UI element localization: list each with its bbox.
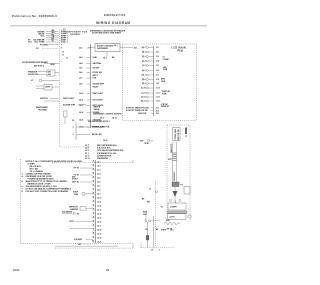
- note paragraph top: [90, 30, 126, 34]
- svg-text:FILL TUBE: FILL TUBE: [34, 42, 45, 44]
- svg-text:BLUE LED: BLUE LED: [92, 134, 102, 136]
- svg-text:J4-1: J4-1: [134, 46, 138, 49]
- inline connector plug: [172, 182, 183, 187]
- svg-text:DOOR WATER DISPENSER: DOOR WATER DISPENSER: [22, 61, 48, 64]
- svg-text:(W)-1: (W)-1: [142, 47, 146, 49]
- svg-text:11: 11: [62, 55, 64, 57]
- connector P1 door plug: [63, 29, 68, 44]
- svg-text:J4-9: J4-9: [100, 117, 104, 120]
- svg-text:SENSOR: SENSOR: [161, 106, 170, 108]
- label J4-7 outside box: [114, 44, 118, 47]
- check valve arrow: [173, 187, 178, 204]
- svg-text:6: 6: [61, 42, 62, 44]
- freezer door switch box: [28, 70, 59, 76]
- svg-text:YL: YL: [63, 42, 65, 44]
- svg-text:86: 86: [93, 185, 95, 187]
- compressor gasket hatched band: [168, 211, 188, 213]
- J labels right bottom: [151, 250, 160, 252]
- run winding zigzag: [164, 220, 180, 225]
- svg-text:CONTROL: CONTROL: [70, 34, 81, 36]
- svg-text:COND FAN: COND FAN: [174, 128, 177, 139]
- svg-text:P8: P8: [181, 185, 183, 187]
- notes text block: [22, 160, 83, 193]
- svg-text:93: 93: [93, 213, 95, 215]
- wire pair compartment: [173, 142, 177, 185]
- header model number: [104, 13, 126, 17]
- label defrost th: [72, 182, 92, 184]
- svg-text:E PHOTO TRANS ICE SW: E PHOTO TRANS ICE SW: [126, 109, 148, 112]
- svg-text:J2-11: J2-11: [97, 202, 101, 204]
- label main pcb link: [91, 126, 110, 129]
- svg-text:LIGHT: LIGHT: [45, 86, 51, 88]
- svg-text:ICE MAKER FILL SOL: ICE MAKER FILL SOL: [97, 152, 117, 155]
- freezer light box: [36, 85, 59, 91]
- compressor terminal box: [168, 214, 192, 219]
- photo sensor stubs: [151, 108, 160, 115]
- wire aux row: [40, 43, 59, 46]
- svg-text:J4-4: J4-4: [79, 62, 82, 65]
- svg-text:12: 12: [66, 57, 68, 59]
- svg-text:(O)-10: (O)-10: [141, 88, 146, 90]
- footer page number: [106, 268, 109, 272]
- ice maker bottom cluster: [62, 211, 79, 216]
- svg-text:DOOR SEE NOTE 4 THIS SHEET: DOOR SEE NOTE 4 THIS SHEET: [92, 32, 122, 35]
- svg-text:VALVE: VALVE: [94, 108, 101, 111]
- svg-text:J4-11: J4-11: [112, 117, 117, 120]
- svg-text:83: 83: [93, 173, 95, 175]
- svg-text:AUGER MTR: AUGER MTR: [93, 83, 105, 86]
- svg-text:J1-12: J1-12: [156, 97, 160, 99]
- svg-text:J1-5: J1-5: [156, 65, 159, 67]
- dispenser interface box: [95, 44, 120, 52]
- svg-text:10: 10: [62, 51, 64, 53]
- defrost heater cluster: [69, 207, 93, 212]
- svg-text:SEE NOTE 4: SEE NOTE 4: [34, 65, 44, 68]
- svg-text:J2-19: J2-19: [97, 234, 101, 236]
- svg-text:DOOR UI BOARD: DOOR UI BOARD: [97, 44, 114, 47]
- svg-text:LED: LED: [93, 78, 97, 80]
- svg-text:95: 95: [93, 221, 95, 223]
- label dispenser control board bottom: [93, 113, 122, 116]
- svg-text:(B)-8: (B)-8: [142, 79, 146, 81]
- wire UI to J4: [120, 46, 137, 49]
- label fill tube htr: [28, 42, 45, 44]
- svg-text:HOUSING: HOUSING: [38, 110, 48, 112]
- bus pin numbers: [61, 31, 62, 44]
- svg-text:J2-7: J2-7: [97, 186, 100, 188]
- svg-text:99: 99: [93, 237, 95, 239]
- svg-text:P5: P5: [77, 213, 79, 215]
- svg-text:J2-1: J2-1: [97, 162, 100, 164]
- svg-text:DEF: DEF: [140, 140, 143, 142]
- main pcb edge line: [95, 160, 97, 244]
- svg-text:J2-2: J2-2: [97, 166, 100, 168]
- svg-text:89: 89: [93, 197, 95, 199]
- svg-text:NOTE 3: NOTE 3: [72, 179, 78, 181]
- tiny text under compressor: [161, 229, 175, 232]
- svg-text:J1-10: J1-10: [156, 88, 160, 90]
- svg-text:J4-5: J4-5: [79, 67, 82, 70]
- main pcb pin ticks and labels: [92, 161, 102, 244]
- svg-text:COMPR: COMPR: [170, 207, 177, 209]
- svg-text:J4-16: J4-16: [79, 119, 83, 122]
- svg-text:J2-15: J2-15: [97, 218, 101, 220]
- svg-text:J2-21: J2-21: [97, 242, 101, 244]
- pcb edge line right: [153, 46, 155, 116]
- svg-text:J2-13: J2-13: [97, 210, 101, 212]
- svg-text:DEF TH: DEF TH: [72, 182, 79, 184]
- pin net labels right: [156, 47, 160, 102]
- svg-text:82: 82: [93, 169, 95, 171]
- svg-text:EW23BC71IS: EW23BC71IS: [104, 13, 126, 17]
- svg-text:FZ TH: FZ TH: [74, 175, 80, 177]
- svg-text:J4-7: J4-7: [79, 77, 82, 80]
- bottom wire plain: [70, 228, 93, 230]
- wire UI left stub: [88, 47, 95, 49]
- svg-text:J3-1: J3-1: [156, 108, 160, 110]
- header rule: [10, 25, 207, 27]
- dashed return wire: [55, 245, 133, 249]
- header title WIRING DIAGRAM: [96, 21, 131, 25]
- label OL left: [161, 207, 164, 209]
- footer date code: [13, 268, 20, 272]
- svg-text:1: 1: [67, 42, 68, 44]
- label water valve right cluster: [94, 106, 101, 111]
- svg-text:(Y)-5: (Y)-5: [142, 65, 146, 67]
- svg-text:-1: -1: [159, 250, 161, 252]
- svg-text:(R)-3: (R)-3: [142, 56, 146, 58]
- svg-text:J4-6: J4-6: [79, 71, 82, 74]
- dispenser housing label: [36, 107, 48, 111]
- condenser fan box: [173, 128, 181, 141]
- svg-text:J4-14: J4-14: [79, 111, 83, 114]
- svg-text:NEUTRAL: NEUTRAL: [93, 62, 103, 65]
- svg-text:18 BK: 18 BK: [50, 64, 56, 66]
- svg-text:J1-1: J1-1: [156, 47, 159, 49]
- svg-text:PWR: PWR: [163, 69, 168, 71]
- evap fan cluster: [73, 191, 93, 196]
- svg-text:J4-7: J4-7: [114, 44, 118, 47]
- bus stub labels lower: [61, 44, 68, 59]
- svg-text:J4-10: J4-10: [79, 92, 83, 95]
- svg-text:WTR VALVE DISPENSER SOL: WTR VALVE DISPENSER SOL: [97, 149, 125, 152]
- svg-text:AUGER MTR: AUGER MTR: [63, 103, 76, 106]
- label UI comm: [163, 57, 169, 61]
- svg-text:GND: GND: [161, 81, 166, 83]
- svg-text:03/11: 03/11: [13, 268, 20, 272]
- svg-text:ICE CHUTE: ICE CHUTE: [93, 100, 104, 102]
- svg-text:(B)-2: (B)-2: [142, 52, 146, 54]
- svg-text:J4-1: J4-1: [79, 47, 82, 50]
- svg-text:SW: SW: [48, 74, 51, 76]
- svg-text:J2-11: J2-11: [85, 158, 90, 160]
- defrost thermostat left: [140, 139, 153, 145]
- svg-text:J2-6: J2-6: [97, 182, 100, 184]
- overload protector: [170, 199, 182, 201]
- label disp light left: [63, 98, 75, 100]
- ice mkr label bottom: [74, 239, 93, 241]
- svg-text:DEFROST: DEFROST: [174, 171, 176, 181]
- label J4 main: [88, 117, 117, 124]
- connector legend table: [85, 145, 125, 160]
- label thermistor: [74, 168, 93, 170]
- svg-text:-3: -3: [72, 127, 74, 129]
- svg-text:J2-8: J2-8: [97, 190, 100, 192]
- svg-text:85: 85: [93, 181, 95, 183]
- svg-text:FOR ANY TEST CONNECTION USE J2: FOR ANY TEST CONNECTION USE J2 HEADER.: [26, 190, 70, 193]
- tiny connector mid compartment: [149, 189, 158, 193]
- svg-text:(G)-12: (G)-12: [141, 97, 146, 99]
- label photo sensor: [126, 107, 150, 115]
- svg-text:ICE MKR: ICE MKR: [74, 239, 83, 241]
- dispenser board pin stubs: [79, 47, 105, 129]
- svg-text:SEE DISPENSER NOTE 4: SEE DISPENSER NOTE 4: [88, 120, 109, 123]
- wire freezer door row: [22, 61, 59, 66]
- svg-text:J1-11: J1-11: [156, 93, 160, 95]
- svg-text:100: 100: [92, 241, 95, 243]
- see note label: [72, 176, 78, 180]
- label condenser fan vertical: [170, 144, 173, 153]
- svg-text:92: 92: [93, 209, 95, 211]
- svg-text:90: 90: [93, 201, 95, 203]
- svg-text:(Y)-11: (Y)-11: [141, 93, 145, 95]
- svg-text:J4-11: J4-11: [79, 99, 83, 102]
- label fz thermistor: [74, 175, 93, 177]
- svg-text:J1-8: J1-8: [156, 79, 159, 81]
- svg-text:97: 97: [93, 229, 95, 231]
- pin numbers left: [141, 47, 146, 102]
- label LCD MAIN PCB: [172, 47, 187, 53]
- label water valve cluster: [37, 30, 45, 37]
- label ice maker: [28, 39, 45, 42]
- svg-text:DISPENSER: DISPENSER: [97, 158, 109, 160]
- svg-text:J1-6: J1-6: [156, 70, 159, 72]
- svg-text:J3-2: J3-2: [156, 110, 160, 112]
- dispenser board edge (vertical): [90, 44, 92, 128]
- svg-text:S M R: S M R: [170, 217, 176, 219]
- svg-text:DOOR AJAR: DOOR AJAR: [92, 126, 104, 129]
- header publication number: [12, 14, 57, 18]
- small connector mid: [64, 111, 68, 124]
- run capacitor label: [143, 212, 148, 216]
- svg-text:WH OR: WH OR: [167, 229, 173, 231]
- svg-text:J4-3: J4-3: [103, 57, 107, 60]
- svg-text:GND RTN: GND RTN: [138, 113, 147, 115]
- auger motor bottom: [70, 221, 93, 223]
- label LED pwr: [163, 67, 168, 71]
- svg-text:J2-12: J2-12: [97, 206, 101, 208]
- label display pwr: [162, 90, 171, 95]
- svg-text:DOOR SW: DOOR SW: [28, 74, 38, 76]
- svg-text:J5: J5: [149, 189, 151, 191]
- svg-text:(W)-7: (W)-7: [142, 75, 146, 77]
- svg-text:J3-3: J3-3: [156, 113, 160, 115]
- svg-text:8: 8: [61, 48, 62, 50]
- svg-text:P3: P3: [72, 120, 74, 122]
- svg-text:J2-10: J2-10: [97, 198, 101, 200]
- svg-text:J2-5: J2-5: [97, 178, 100, 180]
- wire aux row 2: [36, 48, 59, 50]
- svg-text:J2-9: J2-9: [97, 194, 100, 196]
- svg-text:DISPENSER CONTROL BOARD: DISPENSER CONTROL BOARD: [93, 113, 122, 116]
- machine compartment dashed strip: [167, 125, 190, 222]
- wire harness dashed bus (freezer door fold line): [60, 30, 90, 148]
- wire code labels compartment: [142, 199, 151, 204]
- compressor shell box: [168, 201, 186, 211]
- svg-text:(R)-9: (R)-9: [142, 83, 146, 85]
- svg-text:(W)-13: (W)-13: [141, 101, 146, 103]
- svg-text:98: 98: [93, 233, 95, 235]
- svg-text:J2-14: J2-14: [97, 213, 101, 216]
- svg-text:J6: J6: [151, 250, 153, 252]
- door sw bottom: [78, 244, 93, 246]
- svg-text:J2-18: J2-18: [97, 230, 101, 232]
- wire color code labels: [52, 30, 63, 42]
- door switch label: [40, 98, 59, 101]
- svg-text:J1-7: J1-7: [156, 75, 159, 77]
- dashed top edge lower-right section: [52, 160, 133, 163]
- dashed bottom right corner: [141, 242, 175, 248]
- defrost label vertical: [174, 171, 176, 181]
- svg-text:MTR: MTR: [70, 221, 75, 223]
- svg-text:INPUT: INPUT: [93, 75, 99, 77]
- svg-text:HEATER: HEATER: [70, 208, 78, 211]
- connector pin circles: [146, 47, 153, 103]
- svg-text:J2-16: J2-16: [97, 222, 101, 224]
- svg-text:7: 7: [61, 44, 62, 46]
- svg-text:DISP LIGHT: DISP LIGHT: [93, 93, 104, 95]
- svg-text:J1-9: J1-9: [156, 83, 159, 85]
- svg-text:DOOR SW: DOOR SW: [93, 72, 102, 74]
- compartment wire verticals: [148, 216, 154, 248]
- svg-text:MOTOR 2W: MOTOR 2W: [178, 129, 180, 140]
- defrost heater coil symbol: [168, 153, 176, 161]
- run cap terminals: [145, 214, 160, 222]
- vertical wire below UI box: [103, 52, 115, 60]
- svg-text:(G)-6: (G)-6: [142, 70, 146, 72]
- terminal block right: [184, 187, 190, 195]
- svg-text:J1-13: J1-13: [156, 101, 160, 103]
- svg-text:FAN: FAN: [74, 193, 78, 196]
- right stub compartment: [185, 128, 187, 138]
- label dispenser pcb control: [66, 32, 88, 37]
- lower section dashed border: [21, 159, 134, 244]
- svg-text:91: 91: [93, 205, 95, 207]
- svg-text:DISPENSER: DISPENSER: [97, 48, 109, 50]
- svg-text:B PHOTO TRANS FRZ LED: B PHOTO TRANS FRZ LED: [126, 107, 150, 110]
- svg-text:PWR: PWR: [162, 93, 167, 95]
- svg-text:FF TH: FF TH: [74, 168, 80, 170]
- svg-text:ICE MAKER: ICE MAKER: [62, 211, 73, 214]
- svg-text:PCB: PCB: [178, 50, 183, 53]
- svg-text:RELAY: RELAY: [93, 85, 100, 88]
- freezer light lamp: [31, 79, 59, 82]
- svg-text:COMM: COMM: [163, 59, 169, 61]
- svg-text:J1-2: J1-2: [156, 52, 159, 54]
- svg-text:P4 GRN: P4 GRN: [40, 43, 48, 46]
- label auger motor left: [63, 103, 87, 106]
- machine compartment left dashed edge: [155, 180, 157, 248]
- svg-text:ICE DR: ICE DR: [93, 68, 100, 70]
- svg-text:87: 87: [93, 189, 95, 191]
- see note under door row: [34, 65, 44, 68]
- long wire to compressor area: [55, 245, 118, 247]
- svg-text:80: 80: [93, 161, 95, 163]
- svg-text:88: 88: [93, 193, 95, 195]
- svg-text:J2-15: J2-15: [103, 140, 107, 142]
- door ajar branch: [72, 120, 104, 140]
- svg-text:Publication No. 09080898-0: Publication No. 09080898-0: [12, 14, 57, 18]
- svg-text:DISP LIGHT: DISP LIGHT: [63, 98, 75, 100]
- svg-text:J2-3: J2-3: [97, 170, 100, 172]
- compartment blob: [146, 236, 148, 241]
- svg-text:WIRING DIAGRAM: WIRING DIAGRAM: [96, 21, 131, 25]
- svg-text:81: 81: [93, 165, 95, 167]
- svg-text:J4-8: J4-8: [79, 83, 82, 86]
- svg-text:AUGER MOTOR: AUGER MOTOR: [97, 154, 112, 157]
- label ice room: [161, 104, 170, 108]
- svg-text:SWITCH: SWITCH: [40, 98, 48, 100]
- svg-text:96: 96: [93, 225, 95, 227]
- svg-text:J2-17: J2-17: [97, 226, 101, 228]
- svg-text:J4-2: J4-2: [79, 56, 82, 59]
- svg-text:J2-4: J2-4: [97, 173, 100, 176]
- svg-text:-1: -1: [72, 134, 74, 136]
- tiny text bottom compartment: [145, 229, 173, 232]
- dashed enclosure LCD main pcb: [123, 44, 197, 121]
- svg-text:LINE: LINE: [93, 57, 98, 59]
- svg-text:J2-20: J2-20: [97, 238, 101, 240]
- svg-text:SW: SW: [78, 244, 81, 246]
- label J2-15 stub: [103, 140, 107, 142]
- label board gnd: [161, 79, 166, 83]
- wire group door harness top: [46, 32, 67, 43]
- svg-text:J1-3: J1-3: [156, 56, 159, 58]
